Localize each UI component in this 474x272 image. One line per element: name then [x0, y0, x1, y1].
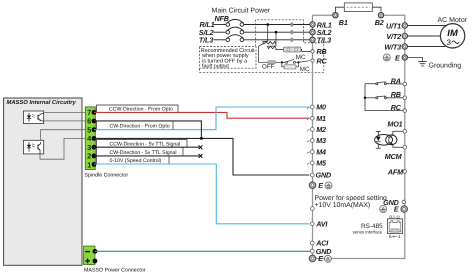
- svg-text:V/T2: V/T2: [386, 32, 401, 41]
- dashed main circuit boundary polygon: [200, 20, 324, 73]
- terminal MCM: [403, 145, 407, 149]
- signal label box 1: [97, 105, 179, 112]
- wire black pin6 down to junction: [94, 121, 201, 138]
- terminal RB: [403, 96, 407, 100]
- svg-text:M3: M3: [316, 136, 326, 145]
- fuse zigzag A: [263, 41, 276, 44]
- terminal MO1: [403, 130, 407, 134]
- AC motor lines: [408, 26, 446, 47]
- svg-text:6: 6: [87, 117, 91, 126]
- terminal T/L3: [310, 37, 315, 42]
- wire opto2 collector to pin 5: [41, 130, 94, 142]
- wire green power to analog GND: [95, 250, 310, 252]
- MASSO power connector: [84, 246, 95, 264]
- svg-text:3: 3: [87, 143, 91, 152]
- svg-text:W/T3: W/T3: [384, 42, 401, 51]
- svg-text:1: 1: [398, 234, 401, 239]
- terminal M3: [307, 141, 310, 143]
- wire opto2 emitter to pin 4: [40, 138, 94, 159]
- svg-text:M0: M0: [316, 103, 326, 112]
- wire pin3 TTL terminated: [94, 146, 199, 148]
- svg-text:6: 6: [389, 234, 392, 239]
- terminal RC: [403, 109, 407, 113]
- OFF pushbutton: [259, 61, 282, 63]
- svg-text:fault output: fault output: [202, 63, 229, 69]
- NFB breaker poles: [214, 19, 311, 41]
- MC main contacts (gray): [291, 23, 294, 42]
- svg-text:GND: GND: [316, 171, 332, 180]
- relay contact RA: [365, 82, 403, 85]
- MC coil block: [284, 47, 301, 52]
- X terminator pin3: [199, 145, 203, 149]
- terminal U/T1: [402, 23, 407, 28]
- svg-text:E: E: [318, 254, 323, 263]
- svg-text:MO1: MO1: [387, 120, 402, 129]
- svg-text:M5: M5: [316, 159, 327, 168]
- X terminator pin2: [199, 154, 203, 158]
- terminal RC (left): [311, 59, 314, 62]
- svg-text:M2: M2: [316, 125, 326, 134]
- wire blue 0-10V pin1 to AVI: [94, 164, 309, 224]
- braking resistor: [335, 7, 381, 12]
- svg-text:CCW-Direction - 5v TTL Signal: CCW-Direction - 5v TTL Signal: [110, 142, 181, 148]
- svg-text:OFF: OFF: [262, 63, 275, 70]
- signal label box 2: [97, 121, 174, 130]
- signal label box 5: [97, 156, 170, 164]
- optocoupler U1: [23, 111, 43, 124]
- svg-text:E: E: [394, 205, 399, 214]
- tap R/L1 down: [267, 25, 269, 42]
- svg-text:CW-Direction - From Opto: CW-Direction - From Opto: [110, 124, 170, 130]
- svg-text:AC Motor: AC Motor: [438, 17, 468, 24]
- terminal +10V: [310, 207, 314, 211]
- junction dot S/L2 tap: [275, 31, 278, 34]
- terminal GND digital: [310, 173, 314, 177]
- svg-text:IM: IM: [447, 28, 458, 38]
- spindle connector green strip: [85, 107, 95, 170]
- svg-text:RC: RC: [317, 56, 328, 65]
- terminal GND (right): [402, 200, 406, 204]
- svg-text:MC: MC: [300, 66, 310, 73]
- wire black pin4 to GND terminal: [94, 138, 309, 175]
- VFD outline: [313, 15, 405, 258]
- svg-text:CCW-Direction - From Opto: CCW-Direction - From Opto: [109, 107, 173, 113]
- terminal M4: [307, 152, 310, 154]
- svg-text:NFB: NFB: [215, 14, 229, 23]
- terminal ACI: [310, 241, 314, 245]
- svg-text:0-10V (Speed Control): 0-10V (Speed Control): [110, 158, 162, 164]
- junction dot R/L1 tap: [266, 23, 269, 26]
- svg-text:MCM: MCM: [385, 152, 403, 161]
- wire red CCW-From-Opto pin7 to M1: [94, 112, 309, 118]
- left control terminals: [307, 103, 387, 263]
- svg-text:B1: B1: [339, 18, 348, 27]
- terminal E (top right): [402, 55, 407, 60]
- svg-text:RA: RA: [391, 76, 401, 85]
- terminal M5: [307, 163, 310, 165]
- svg-text:M1: M1: [316, 114, 326, 123]
- terminal B2: [378, 13, 383, 18]
- svg-text:MC: MC: [296, 54, 306, 61]
- svg-text:MASSO Internal Circuitry: MASSO Internal Circuitry: [7, 99, 77, 106]
- svg-text:T/L3: T/L3: [199, 35, 213, 44]
- terminal M2: [307, 129, 310, 131]
- earth screw symbol bottom right: [380, 206, 387, 213]
- svg-text:RB: RB: [391, 90, 401, 99]
- svg-text:7: 7: [87, 108, 91, 117]
- wire opto1 emitter to pin 6: [44, 120, 94, 122]
- terminal AVI: [310, 222, 314, 226]
- svg-text:Grounding: Grounding: [429, 62, 462, 70]
- svg-text:1: 1: [87, 161, 91, 170]
- signal label box 3: [97, 140, 188, 148]
- terminal M0: [307, 107, 310, 109]
- terminal GND analog: [310, 249, 314, 253]
- svg-text:3: 3: [447, 38, 451, 47]
- terminal W/T3: [402, 44, 407, 49]
- svg-text:AFM: AFM: [387, 167, 404, 176]
- relay contact RB: [365, 96, 403, 99]
- svg-text:MASSO Power Connector: MASSO Power Connector: [84, 267, 146, 272]
- terminal R/L1: [310, 22, 315, 27]
- terminal E (left): [309, 182, 316, 189]
- svg-text:E: E: [395, 53, 400, 62]
- optocoupler U2: [23, 140, 43, 154]
- svg-text:AVI: AVI: [315, 219, 328, 228]
- svg-text:series interface: series interface: [353, 229, 383, 234]
- earth screw symbol top: [383, 54, 390, 61]
- svg-text:RB: RB: [317, 47, 327, 56]
- junction dot pin6/pin4 net: [200, 137, 203, 140]
- svg-text:5: 5: [87, 126, 91, 135]
- terminal E bottom left: [309, 255, 316, 262]
- signal label box 4: [97, 147, 184, 156]
- dashed recommended circuit note box: [200, 47, 257, 69]
- pin numbers 7..1: [87, 108, 92, 170]
- svg-text:T/L3: T/L3: [317, 36, 331, 45]
- terminal RA: [403, 82, 407, 86]
- terminal M1: [307, 118, 310, 120]
- svg-text:M4: M4: [316, 147, 326, 156]
- tap S/L2 down: [275, 32, 277, 46]
- wire opto1 collector to pin 7: [44, 111, 94, 113]
- terminal V/T2: [402, 33, 407, 38]
- terminal B1: [333, 13, 338, 18]
- left drop to OFF: [259, 44, 264, 63]
- ON / MC holding contact parallel branch: [281, 61, 283, 63]
- wire pin2 TTL terminated: [94, 155, 199, 157]
- AC motor: [440, 24, 464, 48]
- pin dots: [92, 110, 97, 167]
- svg-text:B2: B2: [375, 18, 384, 27]
- terminal RB (left): [311, 50, 314, 53]
- fuse zigzag B: [268, 46, 277, 50]
- relay common bar to RC: [365, 84, 403, 111]
- svg-text:2: 2: [87, 152, 91, 161]
- svg-text:U/T1: U/T1: [386, 21, 401, 30]
- wire cyan CW-From-Opto pin5 to M0: [94, 107, 309, 130]
- terminal S/L2: [310, 30, 315, 35]
- photocoupler output MO1/MCM: [375, 135, 397, 146]
- svg-text:+10V 10mA(MAX): +10V 10mA(MAX): [315, 202, 371, 209]
- svg-text:RC: RC: [391, 103, 402, 112]
- svg-text:CW-Direction - 5v TTL Signal: CW-Direction - 5v TTL Signal: [110, 150, 177, 156]
- note text: [201, 48, 255, 69]
- grounding wire and symbol: [408, 58, 423, 62]
- svg-text:E: E: [318, 181, 323, 190]
- MASSO internal circuitry box: [4, 98, 82, 265]
- terminal AFM: [403, 170, 407, 174]
- svg-text:Spindle Connector: Spindle Connector: [85, 173, 129, 179]
- terminal E (right bottom): [401, 206, 408, 213]
